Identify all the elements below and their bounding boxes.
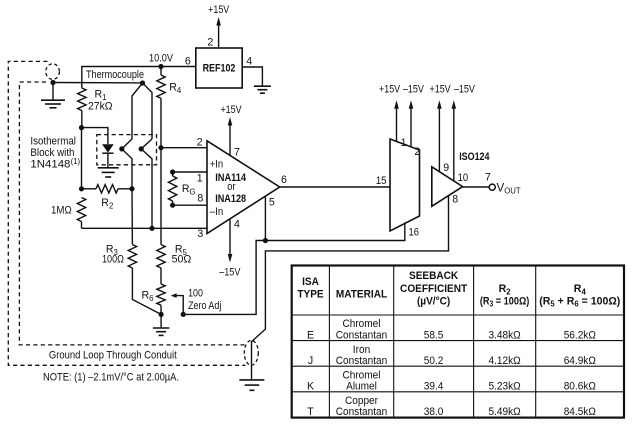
svg-text:–15V: –15V [219, 267, 241, 279]
wire R1 bottom to diode branch node [81, 111, 83, 128]
node R6 ground junction [159, 312, 164, 317]
ISO124 input section trapezoid [390, 139, 420, 231]
svg-text:10.0V: 10.0V [149, 53, 174, 65]
svg-text:9: 9 [443, 162, 449, 174]
power +15V arrow ISO output 9 [438, 109, 440, 172]
power -15V arrow ISO input 2 [410, 109, 412, 147]
table outer border [292, 266, 624, 418]
wire R6 bottom to ground node [160, 305, 162, 314]
table column lines [329, 266, 535, 418]
svg-text:4.12kΩ: 4.12kΩ [489, 355, 521, 367]
wire R1 node down to R2 left node [81, 128, 83, 189]
resistor R2 [82, 188, 97, 190]
svg-text:–15V: –15V [454, 84, 476, 96]
ground REF102 pin 4 [254, 85, 271, 87]
svg-text:39.4: 39.4 [424, 381, 444, 393]
svg-text:Zero Adj: Zero Adj [188, 300, 221, 312]
wire pin 8 [173, 204, 207, 206]
conduit opening ellipse top-left [46, 64, 60, 80]
svg-text:50Ω: 50Ω [172, 254, 192, 266]
node thermocouple junction [140, 80, 145, 85]
table row lines [292, 315, 624, 392]
svg-text:84.5kΩ: 84.5kΩ [564, 406, 596, 418]
ground R6 [160, 314, 162, 327]
node contact B on -In wire [149, 226, 154, 231]
resistor R6 pot 100 [157, 284, 165, 305]
table row K [307, 369, 596, 392]
svg-text:COEFFICIENT: COEFFICIENT [400, 283, 468, 295]
svg-text:4: 4 [234, 218, 240, 230]
svg-text:5.23kΩ: 5.23kΩ [489, 381, 521, 393]
svg-text:Thermocouple: Thermocouple [86, 69, 144, 81]
wire 1M bottom to -In wire [81, 222, 83, 229]
svg-text:Constantan: Constantan [336, 329, 388, 341]
resistor R4 [160, 67, 162, 76]
wire thermocouple lead A (left) [132, 83, 143, 139]
wire contact A rail down through -In wire to R3 [131, 189, 133, 245]
wire R4 bottom to +In node [160, 98, 162, 147]
label 100 Zero Adj [188, 287, 221, 311]
ground under diode [98, 167, 119, 169]
REF102 box U2 [196, 48, 242, 88]
isothermal block dashed outline [97, 135, 157, 165]
svg-text:Ground Loop Through Conduit: Ground Loop Through Conduit [49, 349, 177, 361]
svg-text:56.2kΩ: 56.2kΩ [564, 329, 596, 341]
node R2 right on contact A rail [129, 186, 134, 191]
svg-text:6: 6 [185, 56, 191, 68]
conduit shield inner dashed wall [19, 82, 244, 345]
svg-text:(1): (1) [71, 157, 81, 166]
wire pin 5 down to ref node [264, 196, 266, 240]
svg-text:+In: +In [210, 159, 223, 171]
wire shield node to ground stem [52, 83, 54, 100]
svg-text:80.6kΩ: 80.6kΩ [564, 381, 596, 393]
svg-text:J: J [308, 355, 313, 367]
svg-text:38.0: 38.0 [424, 406, 444, 418]
svg-text:ISA: ISA [302, 276, 319, 288]
svg-text:–In: –In [210, 206, 223, 218]
svg-text:K: K [307, 381, 314, 393]
op-amp U1 INA114/INA128 triangle [207, 141, 280, 234]
wiper arrow R6 [171, 293, 177, 298]
node RG bottom [170, 203, 175, 208]
ground isolated output common [239, 379, 264, 381]
svg-text:TYPE: TYPE [297, 289, 323, 301]
wire pin 2 from +In node [161, 147, 207, 149]
svg-text:Constantan: Constantan [336, 406, 388, 418]
terminal VOUT circle [489, 184, 495, 190]
svg-text:3.48kΩ: 3.48kΩ [489, 329, 521, 341]
ISO124 output triangle [432, 167, 463, 207]
node +In at R4/R5 tap [158, 145, 163, 150]
svg-text:Chromel: Chromel [342, 318, 380, 330]
svg-text:+15V: +15V [430, 84, 452, 96]
svg-text:Copper: Copper [345, 395, 378, 407]
svg-text:Constantan: Constantan [336, 355, 388, 367]
svg-text:6: 6 [281, 174, 287, 186]
wire R5 bottom to R6 top [160, 268, 162, 284]
diode D1 1N4148 [102, 144, 114, 152]
svg-text:Chromel: Chromel [342, 369, 380, 381]
power +15V arrow op-amp pin 7 [229, 126, 231, 156]
svg-text:1: 1 [401, 137, 407, 149]
svg-text:8: 8 [452, 193, 458, 205]
resistor R5 50 [157, 245, 165, 268]
power -15V arrow op-amp pin 4 [229, 219, 231, 254]
node 10.0V at R4 top [158, 64, 163, 69]
wire thermocouple lead B (right) [143, 83, 153, 139]
svg-text:27kΩ: 27kΩ [88, 101, 113, 113]
node contact B point [139, 146, 144, 151]
wire op-amp output to ISO124 pin 15 [280, 186, 390, 188]
svg-text:REF102: REF102 [203, 63, 236, 75]
svg-text:7: 7 [234, 147, 240, 159]
wire 10.0V rail to REF102 pin 6 [82, 67, 196, 89]
svg-text:15: 15 [376, 175, 387, 187]
svg-text:64.9kΩ: 64.9kΩ [564, 355, 596, 367]
node R1/diode/R2 branch [79, 125, 84, 130]
resistor RG [168, 176, 176, 201]
svg-text:NOTE: (1) –2.1mV/°C at 2.00µA.: NOTE: (1) –2.1mV/°C at 2.00µA. [43, 371, 179, 383]
label Isothermal Block with 1N4148(1) [30, 135, 80, 170]
table row T [307, 395, 596, 418]
svg-text:+15V: +15V [208, 4, 230, 16]
svg-text:100Ω: 100Ω [102, 254, 124, 266]
wire node to diode anode [82, 128, 108, 144]
wire +In node down to R5 (crosses -In wire) [160, 148, 162, 245]
table row E [307, 318, 596, 341]
svg-text:1: 1 [197, 173, 203, 185]
svg-text:or: or [227, 181, 236, 193]
svg-text:+15V: +15V [379, 84, 401, 96]
svg-text:7: 7 [485, 171, 491, 183]
svg-text:2: 2 [197, 137, 203, 149]
svg-text:Alumel: Alumel [346, 381, 377, 393]
wire zero-adj wiper to op-amp ref and ISO124 pin 16 [183, 223, 405, 315]
svg-text:T: T [307, 406, 314, 418]
svg-text:16: 16 [409, 226, 420, 238]
wire R3 bottom diagonal to ground node [132, 268, 161, 314]
svg-text:100: 100 [188, 287, 203, 299]
resistor R3 100 [128, 245, 136, 268]
table header R2 (R3 = 100 ohm) [480, 283, 529, 309]
svg-text:5: 5 [269, 196, 275, 208]
svg-text:E: E [307, 329, 314, 341]
wire ISO124 pin 8 to isolated ground [252, 196, 449, 379]
svg-text:50.2: 50.2 [424, 355, 444, 367]
svg-text:58.5: 58.5 [424, 329, 444, 341]
wire -In (pin 3) rail [82, 227, 208, 229]
svg-text:2: 2 [414, 146, 420, 158]
svg-text:INA128: INA128 [215, 193, 246, 205]
svg-text:1MΩ: 1MΩ [51, 204, 72, 216]
svg-text:+15V: +15V [220, 104, 242, 116]
node shield junction [50, 80, 55, 85]
node wiper junction [181, 312, 186, 317]
power +15V arrow ISO input 1 [396, 109, 398, 142]
resistor R1 27k [78, 88, 86, 111]
node RG top [170, 169, 175, 174]
node contact A point [119, 146, 124, 151]
svg-text:–15V: –15V [403, 84, 425, 96]
svg-text:3: 3 [197, 228, 203, 240]
svg-text:(R3 = 100Ω): (R3 = 100Ω) [480, 295, 529, 308]
wire ISO124 output to VOUT terminal [463, 186, 489, 188]
svg-text:MATERIAL: MATERIAL [336, 289, 388, 301]
thermocouple junction contact A [122, 139, 132, 189]
thermocouple junction contact B [141, 139, 152, 228]
conduit shield outer dashed wall [8, 61, 245, 365]
table header ISA TYPE [297, 276, 323, 301]
node op-amp ref junction [263, 238, 268, 243]
svg-text:1N4148: 1N4148 [30, 159, 70, 171]
node R2 left [79, 186, 84, 191]
table header R4 (R5 + R6 = 100 ohm) [539, 283, 620, 309]
conduit opening ellipse bottom-right [244, 340, 258, 365]
power +15V arrow REF102 pin 2 [218, 26, 220, 49]
ground shield (left) [41, 99, 65, 101]
wire REF102 pin 4 to ground [242, 67, 262, 86]
wire pin 1 [173, 171, 207, 173]
svg-text:(µV/°C): (µV/°C) [417, 295, 450, 307]
svg-text:8: 8 [197, 192, 203, 204]
svg-text:ISO124: ISO124 [459, 151, 489, 163]
svg-text:10: 10 [458, 172, 469, 184]
svg-text:5.49kΩ: 5.49kΩ [489, 406, 521, 418]
table header SEEBACK COEFFICIENT (uV/degC) [400, 270, 468, 307]
svg-text:Block with: Block with [30, 147, 74, 159]
resistor 1M-ohm [77, 198, 85, 222]
table row J [308, 344, 596, 367]
power -15V arrow ISO output [453, 109, 455, 181]
wire thermocouple ground lead [53, 82, 143, 84]
svg-text:4: 4 [246, 55, 252, 67]
svg-text:2: 2 [207, 37, 213, 49]
svg-text:Iron: Iron [353, 344, 370, 356]
svg-text:SEEBACK: SEEBACK [409, 270, 459, 282]
svg-text:Isothermal: Isothermal [30, 135, 76, 147]
